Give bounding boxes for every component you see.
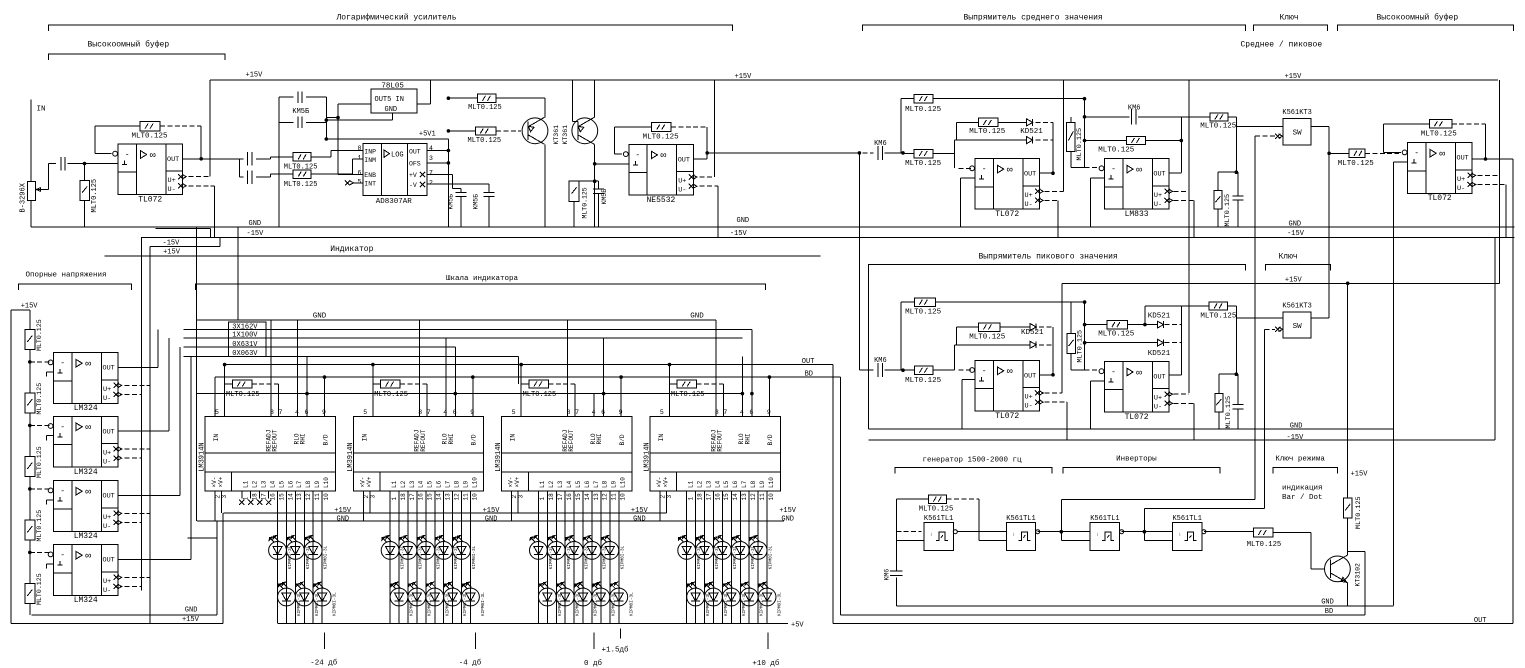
svg-text:U-: U-: [1154, 201, 1162, 209]
svg-text:4: 4: [429, 145, 433, 152]
svg-text:L10: L10: [323, 477, 330, 488]
svg-text:8: 8: [358, 145, 362, 152]
svg-text:×V+: ×V+: [514, 476, 521, 487]
svg-text:1: 1: [539, 497, 546, 501]
svg-text:15: 15: [278, 493, 285, 501]
svg-text:↓: ↓: [930, 532, 933, 538]
svg-text:Среднее / пиковое: Среднее / пиковое: [1241, 41, 1323, 50]
svg-text:L5: L5: [723, 480, 730, 488]
svg-text:K561TL1: K561TL1: [1172, 515, 1201, 523]
svg-text:MLT0.125: MLT0.125: [905, 106, 942, 114]
svg-text:16: 16: [418, 493, 425, 501]
svg-text:MLT0.125: MLT0.125: [671, 391, 705, 399]
svg-text:-: -: [1414, 149, 1419, 158]
svg-text:0X063V: 0X063V: [232, 350, 258, 358]
svg-text:L4: L4: [714, 480, 721, 488]
svg-text:ENB: ENB: [364, 172, 376, 179]
svg-text:11: 11: [314, 493, 321, 501]
svg-text:OUT: OUT: [678, 156, 690, 164]
svg-text:14: 14: [584, 493, 591, 501]
svg-text:↓: ↓: [1012, 532, 1015, 538]
svg-text:-4 дб: -4 дб: [459, 659, 482, 668]
svg-text:LOG: LOG: [391, 152, 404, 160]
svg-text:MLT0.125: MLT0.125: [969, 333, 1006, 341]
svg-text:L7: L7: [444, 480, 451, 488]
svg-text:KТ361: KТ361: [553, 125, 560, 145]
svg-text:18: 18: [548, 493, 555, 501]
svg-text:×V+: ×V+: [218, 476, 225, 487]
svg-text:KD521: KD521: [1021, 329, 1044, 337]
svg-text:+15V: +15V: [631, 507, 649, 515]
svg-text:K561KT3: K561KT3: [1282, 302, 1311, 310]
svg-text:NE5532: NE5532: [646, 196, 675, 205]
svg-text:КIPМ0I-3L: КIPМ0I-3L: [629, 592, 634, 616]
svg-text:K561TL1: K561TL1: [1006, 515, 1035, 523]
svg-text:2: 2: [429, 179, 433, 186]
svg-text:КIPМ0I-3L: КIPМ0I-3L: [333, 592, 338, 616]
svg-text:Ключ: Ключ: [1279, 253, 1298, 262]
svg-text:MLT0.125: MLT0.125: [36, 573, 43, 605]
svg-text:MLT0.125: MLT0.125: [1076, 330, 1084, 363]
svg-text:13: 13: [444, 493, 451, 501]
svg-text:+15V: +15V: [779, 507, 797, 515]
svg-text:IN: IN: [213, 434, 220, 442]
svg-text:∞: ∞: [660, 151, 666, 162]
svg-text:L7: L7: [296, 480, 303, 488]
svg-text:3: 3: [429, 155, 433, 162]
svg-text:KМ5Б: KМ5Б: [601, 189, 608, 205]
svg-text:↓: ↓: [1179, 532, 1182, 538]
svg-text:14: 14: [732, 493, 739, 501]
svg-text:OUT: OUT: [1153, 374, 1165, 382]
svg-text:MLT0.125: MLT0.125: [468, 104, 502, 112]
svg-text:L1: L1: [243, 480, 250, 488]
svg-text:+10 дб: +10 дб: [752, 659, 780, 668]
svg-text:10: 10: [323, 493, 330, 501]
svg-text:Логарифмический усилитель: Логарифмический усилитель: [336, 14, 457, 23]
svg-text:OUT: OUT: [1457, 155, 1469, 163]
svg-text:11: 11: [611, 493, 618, 501]
svg-text:MLT0.125: MLT0.125: [1200, 312, 1237, 320]
svg-text:11: 11: [462, 493, 469, 501]
svg-text:генератор 1500-2000 гц: генератор 1500-2000 гц: [923, 457, 1023, 465]
svg-text:КIPМ0I-3L: КIPМ0I-3L: [778, 592, 783, 616]
svg-text:L9: L9: [611, 480, 618, 488]
svg-text:12: 12: [453, 493, 460, 501]
svg-text:RHI: RHI: [744, 433, 751, 444]
svg-text:+15V: +15V: [246, 72, 264, 80]
svg-text:AD8307AR: AD8307AR: [376, 198, 413, 206]
svg-text:TL072: TL072: [995, 210, 1019, 219]
svg-text:L6: L6: [436, 480, 443, 488]
svg-text:REFOUT: REFOUT: [568, 429, 575, 452]
svg-text:MLT0.125: MLT0.125: [226, 391, 260, 399]
svg-text:3: 3: [221, 495, 228, 499]
svg-text:12: 12: [602, 493, 609, 501]
svg-text:Инверторы: Инверторы: [1116, 456, 1157, 464]
svg-text:SW: SW: [1293, 130, 1303, 138]
svg-text:∞: ∞: [150, 151, 156, 162]
svg-text:MLT0.125: MLT0.125: [582, 187, 589, 218]
svg-text:L10: L10: [768, 477, 775, 488]
svg-text:L1: L1: [391, 480, 398, 488]
svg-text:U+: U+: [1025, 394, 1033, 402]
svg-text:14: 14: [436, 493, 443, 501]
svg-text:-15V: -15V: [730, 230, 748, 238]
svg-text:15: 15: [575, 493, 582, 501]
svg-text:18: 18: [400, 493, 407, 501]
svg-text:MLT0.125: MLT0.125: [91, 179, 99, 213]
svg-text:10: 10: [471, 493, 478, 501]
svg-text:REFOUT: REFOUT: [420, 429, 427, 452]
svg-text:индикация: индикация: [1282, 485, 1323, 493]
svg-text:L8: L8: [305, 480, 312, 488]
svg-text:5: 5: [215, 409, 219, 416]
svg-text:10: 10: [620, 493, 627, 501]
svg-text:KТ361: KТ361: [562, 125, 569, 145]
svg-text:L2: L2: [548, 480, 555, 488]
svg-text:КIPМ0I-3L: КIPМ0I-3L: [769, 545, 774, 569]
svg-text:6: 6: [358, 169, 362, 176]
svg-text:L7: L7: [593, 480, 600, 488]
svg-text:L3: L3: [557, 480, 564, 488]
svg-text:↓: ↓: [1096, 532, 1099, 538]
svg-text:GND: GND: [313, 313, 327, 321]
svg-text:13: 13: [593, 493, 600, 501]
svg-text:GND: GND: [633, 516, 646, 524]
svg-text:MLT0.125: MLT0.125: [468, 137, 502, 145]
svg-text:U+: U+: [1457, 176, 1465, 184]
svg-text:MLT0.125: MLT0.125: [643, 134, 680, 142]
svg-text:KМ5Б: KМ5Б: [473, 194, 480, 210]
svg-text:LM324: LM324: [74, 468, 98, 477]
svg-text:10: 10: [768, 493, 775, 501]
svg-text:MLT0.125: MLT0.125: [1225, 396, 1233, 429]
svg-text:INT: INT: [364, 181, 376, 188]
svg-text:L8: L8: [750, 480, 757, 488]
svg-text:0 дб: 0 дб: [584, 659, 603, 668]
svg-text:K561TL1: K561TL1: [1090, 515, 1119, 523]
svg-text:U+: U+: [168, 177, 176, 185]
svg-text:OUT: OUT: [103, 493, 115, 501]
svg-text:U+: U+: [103, 386, 111, 394]
svg-text:1: 1: [358, 154, 362, 161]
svg-text:GND: GND: [690, 313, 704, 321]
svg-text:U-: U-: [1025, 201, 1033, 209]
svg-text:1: 1: [391, 497, 398, 501]
svg-text:7: 7: [279, 409, 283, 416]
svg-text:LM833: LM833: [1125, 210, 1149, 219]
svg-text:3X162V: 3X162V: [232, 324, 258, 332]
svg-text:5: 5: [363, 409, 367, 416]
svg-text:KМ6: KМ6: [874, 140, 887, 148]
svg-text:TL072: TL072: [995, 412, 1019, 421]
svg-text:L6: L6: [584, 480, 591, 488]
svg-text:K561KT3: K561KT3: [1282, 109, 1311, 117]
svg-text:U-: U-: [1154, 404, 1162, 412]
svg-text:16: 16: [714, 493, 721, 501]
svg-text:MLT0.125: MLT0.125: [1098, 147, 1135, 155]
svg-text:+15V: +15V: [334, 507, 352, 515]
svg-text:7: 7: [723, 409, 727, 416]
svg-text:KТ3102: KТ3102: [1355, 563, 1362, 587]
svg-text:U-: U-: [103, 523, 111, 531]
svg-text:L9: L9: [462, 480, 469, 488]
svg-text:L4: L4: [269, 480, 276, 488]
svg-text:L10: L10: [471, 477, 478, 488]
svg-text:OUT: OUT: [103, 365, 115, 373]
svg-text:L1: L1: [539, 480, 546, 488]
svg-text:U-: U-: [103, 395, 111, 403]
svg-text:U+: U+: [103, 578, 111, 586]
svg-text:KМ5Б: KМ5Б: [292, 108, 309, 116]
svg-text:MLT0.125: MLT0.125: [1338, 160, 1375, 168]
svg-text:1X100V: 1X100V: [232, 332, 258, 340]
svg-text:U-: U-: [678, 187, 686, 195]
svg-text:U-: U-: [1457, 185, 1465, 193]
svg-text:×V+: ×V+: [662, 476, 669, 487]
svg-text:Выпрямитель среднего значени: Выпрямитель среднего значения: [964, 14, 1103, 23]
svg-text:OUT: OUT: [103, 428, 115, 436]
svg-text:GND: GND: [337, 516, 350, 524]
svg-text:U-: U-: [168, 186, 176, 194]
svg-text:REFOUT: REFOUT: [272, 429, 279, 452]
svg-text:-: -: [1111, 165, 1116, 174]
svg-text:КIPМ0I-3L: КIPМ0I-3L: [324, 545, 329, 569]
svg-text:-15V: -15V: [247, 230, 265, 238]
svg-text:+5V: +5V: [791, 622, 804, 630]
svg-text:U+: U+: [1154, 192, 1162, 200]
svg-text:17: 17: [409, 493, 416, 501]
svg-text:-: -: [125, 151, 130, 160]
svg-text:18: 18: [696, 493, 703, 501]
svg-text:12: 12: [305, 493, 312, 501]
svg-text:7: 7: [575, 409, 579, 416]
svg-text:L9: L9: [314, 480, 321, 488]
svg-text:TL072: TL072: [138, 196, 162, 205]
svg-text:L3: L3: [409, 480, 416, 488]
svg-text:OUT: OUT: [409, 148, 421, 155]
svg-text:Высокоомный буфер: Высокоомный буфер: [1377, 14, 1459, 23]
svg-text:TL072: TL072: [1428, 194, 1452, 203]
svg-text:KD521: KD521: [1020, 128, 1043, 136]
svg-text:KМ6: KМ6: [874, 357, 887, 365]
svg-text:+5V1: +5V1: [419, 131, 436, 139]
svg-text:16: 16: [269, 493, 276, 501]
svg-text:L2: L2: [696, 480, 703, 488]
svg-text:MLT0.125: MLT0.125: [1355, 496, 1363, 529]
svg-text:L8: L8: [602, 480, 609, 488]
svg-text:LM324: LM324: [74, 596, 98, 605]
svg-text:3: 3: [518, 495, 525, 499]
svg-text:MLT0.125: MLT0.125: [284, 181, 318, 189]
svg-text:0X631V: 0X631V: [232, 341, 258, 349]
svg-text:13: 13: [296, 493, 303, 501]
svg-text:MLT0.125: MLT0.125: [1247, 541, 1282, 549]
svg-text:U+: U+: [103, 514, 111, 522]
svg-text:-24 дб: -24 дб: [310, 659, 338, 668]
svg-text:∞: ∞: [1136, 368, 1142, 379]
svg-text:-: -: [982, 165, 987, 174]
svg-text:L4: L4: [418, 480, 425, 488]
svg-text:-15V: -15V: [1287, 434, 1305, 442]
svg-text:SW: SW: [1293, 323, 1303, 331]
svg-text:+15V: +15V: [1351, 471, 1369, 479]
svg-text:MLT0.125: MLT0.125: [523, 391, 557, 399]
svg-text:MLT0.125: MLT0.125: [1098, 331, 1135, 339]
svg-text:TL072: TL072: [1125, 413, 1149, 422]
svg-text:REFOUT: REFOUT: [717, 429, 724, 452]
svg-text:U+: U+: [103, 450, 111, 458]
svg-text:L5: L5: [427, 480, 434, 488]
svg-text:-: -: [982, 367, 987, 376]
svg-text:7: 7: [427, 409, 431, 416]
svg-text:L4: L4: [566, 480, 573, 488]
svg-text:3: 3: [666, 495, 673, 499]
svg-text:L5: L5: [575, 480, 582, 488]
svg-text:5: 5: [358, 179, 362, 186]
svg-text:MLT0.125: MLT0.125: [36, 510, 43, 542]
svg-text:5: 5: [512, 409, 516, 416]
svg-text:L2: L2: [400, 480, 407, 488]
svg-text:IN: IN: [658, 434, 665, 442]
svg-text:Выпрямитель пикового значени: Выпрямитель пикового значения: [979, 253, 1118, 262]
svg-text:MLT0.125: MLT0.125: [905, 160, 942, 168]
svg-text:B/D: B/D: [619, 434, 626, 445]
svg-text:MLT0.125: MLT0.125: [374, 391, 408, 399]
svg-text:IN: IN: [510, 434, 517, 442]
svg-text:MLT0.125: MLT0.125: [36, 446, 43, 478]
svg-text:1: 1: [688, 497, 695, 501]
svg-text:U+: U+: [678, 178, 686, 186]
svg-text:MLT0.125: MLT0.125: [969, 128, 1006, 136]
svg-text:MLT0.125: MLT0.125: [905, 309, 942, 317]
svg-text:OUT5 IN: OUT5 IN: [375, 96, 404, 104]
svg-text:MLT0.125: MLT0.125: [132, 132, 169, 140]
svg-text:Ключ: Ключ: [1280, 14, 1299, 23]
svg-text:IN: IN: [361, 434, 368, 442]
svg-text:IN: IN: [37, 106, 46, 114]
svg-text:L6: L6: [732, 480, 739, 488]
svg-text:B-3296X: B-3296X: [20, 182, 28, 212]
svg-text:3: 3: [369, 495, 376, 499]
svg-text:14: 14: [287, 493, 294, 501]
svg-text:GND: GND: [485, 516, 498, 524]
svg-text:11: 11: [759, 493, 766, 501]
svg-text:-: -: [1111, 368, 1116, 377]
svg-text:INP: INP: [364, 148, 376, 155]
svg-text:MLT0.125: MLT0.125: [1076, 128, 1084, 161]
svg-text:L7: L7: [741, 480, 748, 488]
svg-text:∞: ∞: [85, 423, 91, 434]
svg-text:-: -: [60, 423, 65, 432]
svg-text:B/D: B/D: [322, 434, 329, 445]
svg-text:U-: U-: [103, 587, 111, 595]
svg-text:Опорные напряжения: Опорные напряжения: [26, 272, 107, 280]
svg-text:∞: ∞: [1007, 367, 1013, 378]
svg-text:MLT0.125: MLT0.125: [1200, 123, 1237, 131]
svg-text:17: 17: [260, 493, 267, 501]
svg-text:5: 5: [660, 409, 664, 416]
svg-text:KD521: KD521: [1148, 313, 1171, 321]
svg-text:MLT0.125: MLT0.125: [36, 383, 43, 415]
svg-text:L3: L3: [705, 480, 712, 488]
svg-text:17: 17: [557, 493, 564, 501]
svg-text:КIPМ0I-3L: КIPМ0I-3L: [481, 592, 486, 616]
svg-text:+15V: +15V: [483, 507, 501, 515]
svg-text:Индикатор: Индикатор: [330, 245, 373, 254]
svg-text:LM324: LM324: [74, 404, 98, 413]
svg-text:-: -: [635, 151, 640, 160]
svg-text:OUT: OUT: [103, 557, 115, 565]
svg-text:∞: ∞: [85, 552, 91, 563]
svg-text:∞: ∞: [1136, 165, 1142, 176]
svg-text:∞: ∞: [85, 488, 91, 499]
svg-text:RHI: RHI: [300, 433, 307, 444]
svg-text:B/D: B/D: [767, 434, 774, 445]
svg-text:15: 15: [427, 493, 434, 501]
svg-text:16: 16: [566, 493, 573, 501]
svg-text:OUT: OUT: [1024, 372, 1036, 380]
svg-text:18: 18: [252, 493, 259, 501]
svg-text:∞: ∞: [1007, 165, 1013, 176]
svg-text:Высокоомный буфер: Высокоомный буфер: [88, 41, 170, 50]
svg-text:RHI: RHI: [596, 433, 603, 444]
svg-text:-: -: [60, 487, 65, 496]
svg-text:MLT0.125: MLT0.125: [919, 506, 954, 514]
svg-text:Шкала индикатора: Шкала индикатора: [446, 275, 519, 283]
svg-text:17: 17: [705, 493, 712, 501]
svg-text:U-: U-: [103, 459, 111, 467]
svg-text:Ключ режима: Ключ режима: [1275, 456, 1325, 464]
svg-text:MLT0.125: MLT0.125: [1224, 194, 1232, 227]
svg-text:15: 15: [723, 493, 730, 501]
svg-text:OFS: OFS: [409, 161, 421, 168]
svg-text:L9: L9: [759, 480, 766, 488]
svg-text:OUT: OUT: [1153, 171, 1165, 179]
svg-text:INM: INM: [364, 157, 376, 164]
svg-text:GND: GND: [781, 516, 794, 524]
svg-text:L3: L3: [260, 480, 267, 488]
svg-text:L8: L8: [453, 480, 460, 488]
svg-text:-: -: [60, 551, 65, 560]
svg-text:MLT0.125: MLT0.125: [1421, 130, 1458, 138]
svg-text:12: 12: [750, 493, 757, 501]
svg-text:B/D: B/D: [471, 434, 478, 445]
svg-text:L10: L10: [620, 477, 627, 488]
svg-text:KD521: KD521: [1148, 350, 1171, 358]
svg-text:LM324: LM324: [74, 532, 98, 541]
svg-text:RHI: RHI: [448, 433, 455, 444]
svg-text:-: -: [60, 359, 65, 368]
svg-text:L6: L6: [287, 480, 294, 488]
svg-text:GND: GND: [185, 607, 198, 615]
svg-text:×V+: ×V+: [366, 476, 373, 487]
svg-text:KМ6: KМ6: [1128, 105, 1141, 113]
svg-text:KМ6: KМ6: [884, 569, 891, 581]
svg-text:L5: L5: [278, 480, 285, 488]
svg-text:U-: U-: [1025, 403, 1033, 411]
svg-text:OUT: OUT: [1024, 171, 1036, 179]
svg-text:L2: L2: [252, 480, 259, 488]
svg-text:MLT0.125: MLT0.125: [36, 319, 43, 351]
svg-text:∞: ∞: [1439, 150, 1445, 161]
svg-text:КIPМ0I-3L: КIPМ0I-3L: [472, 545, 477, 569]
svg-text:-V: -V: [409, 182, 417, 189]
svg-text:Bar / Dot: Bar / Dot: [1282, 494, 1323, 502]
svg-text:U+: U+: [1154, 395, 1162, 403]
svg-text:MLT0.125: MLT0.125: [905, 377, 942, 385]
